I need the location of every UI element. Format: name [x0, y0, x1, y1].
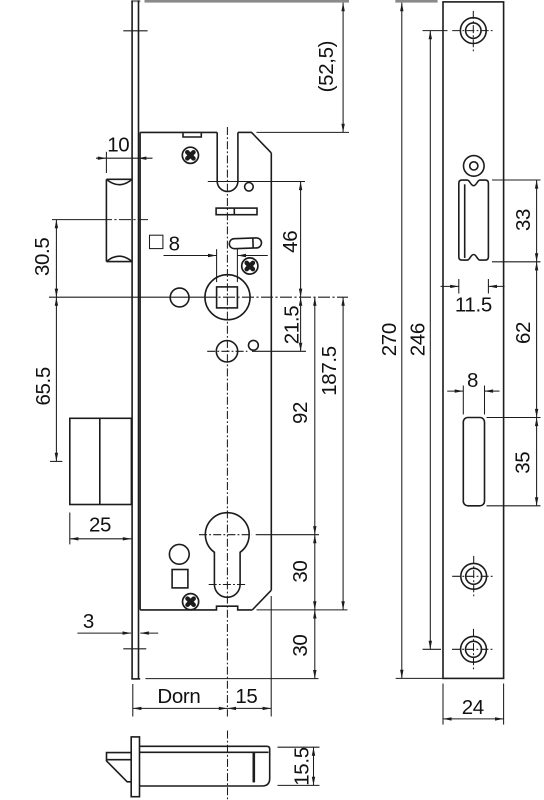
- deadbolt body: [70, 418, 132, 504]
- dim 24 line: [443, 718, 504, 720]
- svg-text:30: 30: [289, 635, 312, 657]
- plate top screw hole inner: [466, 23, 481, 38]
- lock case top edge left of spring slot: [140, 131, 217, 133]
- latch bolt bottom edge: [106, 261, 132, 263]
- dim 15.5 extension bottom: [278, 784, 320, 786]
- guide bar divider: [233, 208, 235, 215]
- svg-text:24: 24: [462, 696, 484, 719]
- deadbolt face line: [99, 418, 101, 504]
- latch bolt left edge: [105, 179, 107, 261]
- dim 8 arrow right: [237, 255, 267, 257]
- side view centerline: [227, 731, 229, 800]
- extension 246 top: [423, 30, 448, 32]
- follower horizontal centerline solid part: [49, 296, 204, 298]
- faceplate back edge: [138, 1, 140, 679]
- side view case inner line: [140, 751, 269, 753]
- small circle right of spring slot: [245, 183, 254, 192]
- svg-text:21.5: 21.5: [280, 306, 303, 345]
- svg-text:10: 10: [107, 134, 129, 157]
- svg-text:(52,5): (52,5): [315, 41, 338, 92]
- screw S2 head: [242, 258, 258, 274]
- dim 3 arrow left: [77, 632, 131, 634]
- plate bottom hole crosshair v: [473, 629, 475, 670]
- dim 24 extension right: [503, 684, 505, 725]
- latch bolt top edge: [106, 178, 132, 180]
- dim 8 plate extension right: [484, 386, 486, 415]
- svg-text:33: 33: [512, 209, 535, 231]
- fixing hole circle B below follower: [216, 341, 237, 362]
- extension deadbolt opening top: [487, 417, 541, 419]
- dim 8 plate arrow right: [485, 390, 500, 392]
- dim 24 extension left: [442, 684, 444, 725]
- latch bolt bottom curve: [106, 256, 132, 261]
- cylinder head centerline: [199, 534, 252, 536]
- gray cap top of faceplate: [131, 0, 140, 2]
- plate bottom screw hole inner: [466, 641, 482, 657]
- screw S3 head: [183, 594, 199, 610]
- Dorn extension left: [132, 684, 134, 717]
- snib lever capsule: [229, 238, 262, 249]
- fixing hole circle C: [169, 544, 189, 564]
- extension cylinder axis: [256, 534, 319, 536]
- lock case top-right chamfer: [252, 133, 272, 153]
- square hole above screw S3: [172, 570, 188, 588]
- svg-text:30.5: 30.5: [31, 238, 54, 277]
- extension case bottom: [257, 609, 348, 611]
- euro cylinder profile: [205, 513, 249, 598]
- dim 11.5 arrow left: [441, 285, 459, 287]
- handle follower circle: [205, 275, 250, 320]
- latch axis dashed part: [100, 219, 148, 221]
- dim 25 extension: [69, 513, 71, 545]
- screw S1 phillips cross: [184, 149, 196, 161]
- dim 30 lower line: [314, 610, 316, 679]
- plate middle screw hole inner: [466, 568, 482, 584]
- svg-text:8: 8: [467, 369, 478, 392]
- screw S3 phillips cross: [184, 595, 196, 607]
- svg-text:15: 15: [235, 685, 257, 708]
- latch spring slot bottom arc: [217, 181, 238, 191]
- dim 92 line: [314, 297, 316, 535]
- retainer tab below case top edge: [183, 133, 201, 137]
- latch opening folded lip line: [464, 184, 466, 258]
- dim 8 extension right: [236, 249, 238, 282]
- faceplate bottom end cap: [131, 678, 140, 680]
- dim (52,5) line: [342, 3, 344, 133]
- plate top hole crosshair h: [452, 30, 495, 32]
- plate small hole inner: [470, 162, 478, 170]
- side view case outline: [140, 746, 270, 786]
- svg-text:92: 92: [289, 402, 312, 424]
- follower horizontal centerline dashed part: [204, 296, 348, 298]
- extension case top to dims: [257, 131, 350, 133]
- svg-text:3: 3: [83, 610, 94, 633]
- dim 46 line: [300, 182, 302, 298]
- deadbolt strike opening: [463, 418, 484, 506]
- svg-text:8: 8: [169, 232, 180, 255]
- extension 270 bottom: [396, 677, 443, 679]
- dim 8 plate extension left: [462, 386, 464, 415]
- dim 270 line: [401, 3, 403, 679]
- tick on faceplate below 3-dim: [123, 648, 146, 650]
- lock case bottom-right chamfer: [252, 590, 271, 610]
- tiny circle right of circle B: [249, 340, 259, 350]
- dim 65.5 tick: [50, 460, 62, 462]
- dim 8 plate arrow left: [447, 390, 463, 392]
- dim Dorn line: [133, 707, 228, 709]
- dim 246 line: [429, 31, 431, 650]
- dim 3 arrow right: [140, 632, 158, 634]
- extension circle B axis: [252, 350, 306, 352]
- dim 10 extension line: [105, 152, 107, 173]
- dim 8 arrow left: [164, 255, 217, 257]
- circle B horizontal crosshair: [207, 350, 247, 352]
- dim 10 line: [96, 157, 153, 159]
- square symbol of dim 8: [150, 235, 163, 248]
- dim 30.5 line: [55, 220, 57, 298]
- vertical centerline of lock: [226, 127, 228, 717]
- svg-text:62: 62: [512, 322, 535, 344]
- dim 11.5 arrow right: [488, 285, 504, 287]
- side view faceplate bar: [131, 737, 139, 797]
- plate bottom screw hole outer: [461, 636, 487, 662]
- dim 15.5 extension top: [278, 746, 320, 748]
- Dorn-15 extension right: [270, 596, 272, 717]
- svg-text:270: 270: [378, 323, 401, 356]
- dim 15.5 line: [313, 747, 315, 785]
- dim 33 line: [536, 180, 538, 262]
- follower square spindle hole: [217, 287, 238, 308]
- lock case left edge: [139, 132, 141, 610]
- extension latch seat line: [208, 181, 305, 183]
- svg-text:15.5: 15.5: [291, 747, 314, 786]
- svg-text:246: 246: [406, 323, 429, 356]
- tick screw-hole axis on faceplate: [123, 30, 147, 32]
- dim 30 upper line: [314, 535, 316, 610]
- svg-text:65.5: 65.5: [32, 367, 55, 406]
- dim 65.5 line: [55, 297, 57, 461]
- screw S1 head: [182, 147, 198, 163]
- latch axis solid part: [52, 219, 100, 221]
- dim 62 line: [536, 262, 538, 418]
- dim 15 line: [227, 707, 271, 709]
- dim 21.5 line: [300, 297, 302, 351]
- svg-text:Dorn: Dorn: [157, 685, 200, 708]
- plate middle hole crosshair h: [452, 575, 495, 577]
- plate top screw hole outer: [460, 18, 486, 44]
- guide bar below spring slot: [216, 208, 257, 215]
- side view latch bar: [107, 753, 132, 760]
- lock case bottom edge with notch: [140, 606, 252, 610]
- plate middle screw hole outer: [461, 563, 487, 589]
- dim 11.5 extension right: [487, 279, 489, 294]
- latch spring slot right wall: [237, 132, 239, 181]
- svg-text:25: 25: [89, 514, 111, 537]
- extension faceplate bottom: [145, 678, 318, 680]
- svg-text:35: 35: [512, 452, 535, 474]
- gray cut-off bar top of 270 extension: [395, 0, 437, 3]
- plate small hole outer: [464, 156, 485, 177]
- lock case top edge right of spring slot: [238, 131, 252, 133]
- dim 187.5 line: [342, 297, 344, 610]
- extension 246 bottom: [423, 648, 442, 650]
- svg-text:11.5: 11.5: [455, 293, 492, 316]
- fixing hole circle A: [170, 288, 189, 307]
- gray cut-off bar top of lock case: [145, 0, 350, 3]
- extension deadbolt opening bottom: [487, 505, 541, 507]
- latch bolt top curve: [106, 179, 132, 184]
- latch strike opening: [459, 180, 489, 260]
- lock case right edge: [270, 153, 272, 590]
- plate middle hole crosshair v: [473, 556, 475, 597]
- extension latch opening bottom: [492, 261, 541, 263]
- dim 35 line: [536, 418, 538, 506]
- cylinder stem arc centerline: [209, 584, 246, 586]
- latch spring slot left wall: [216, 132, 218, 181]
- extension latch opening top: [492, 179, 541, 181]
- dim 8 extension left: [216, 249, 218, 282]
- side view latch wedge: [107, 760, 132, 782]
- svg-text:30: 30: [289, 561, 312, 583]
- screw S2 phillips cross: [244, 260, 256, 272]
- dim 11.5 extension left: [458, 279, 460, 294]
- plate bottom hole crosshair h: [452, 648, 495, 650]
- plate top hole crosshair v: [472, 11, 474, 52]
- svg-text:46: 46: [279, 231, 302, 253]
- faceplate front edge: [131, 1, 133, 679]
- dim 25 line: [70, 538, 132, 540]
- strike plate outline: [443, 2, 504, 679]
- svg-text:187.5: 187.5: [318, 346, 341, 396]
- side view cylinder slot thick line: [253, 752, 256, 783]
